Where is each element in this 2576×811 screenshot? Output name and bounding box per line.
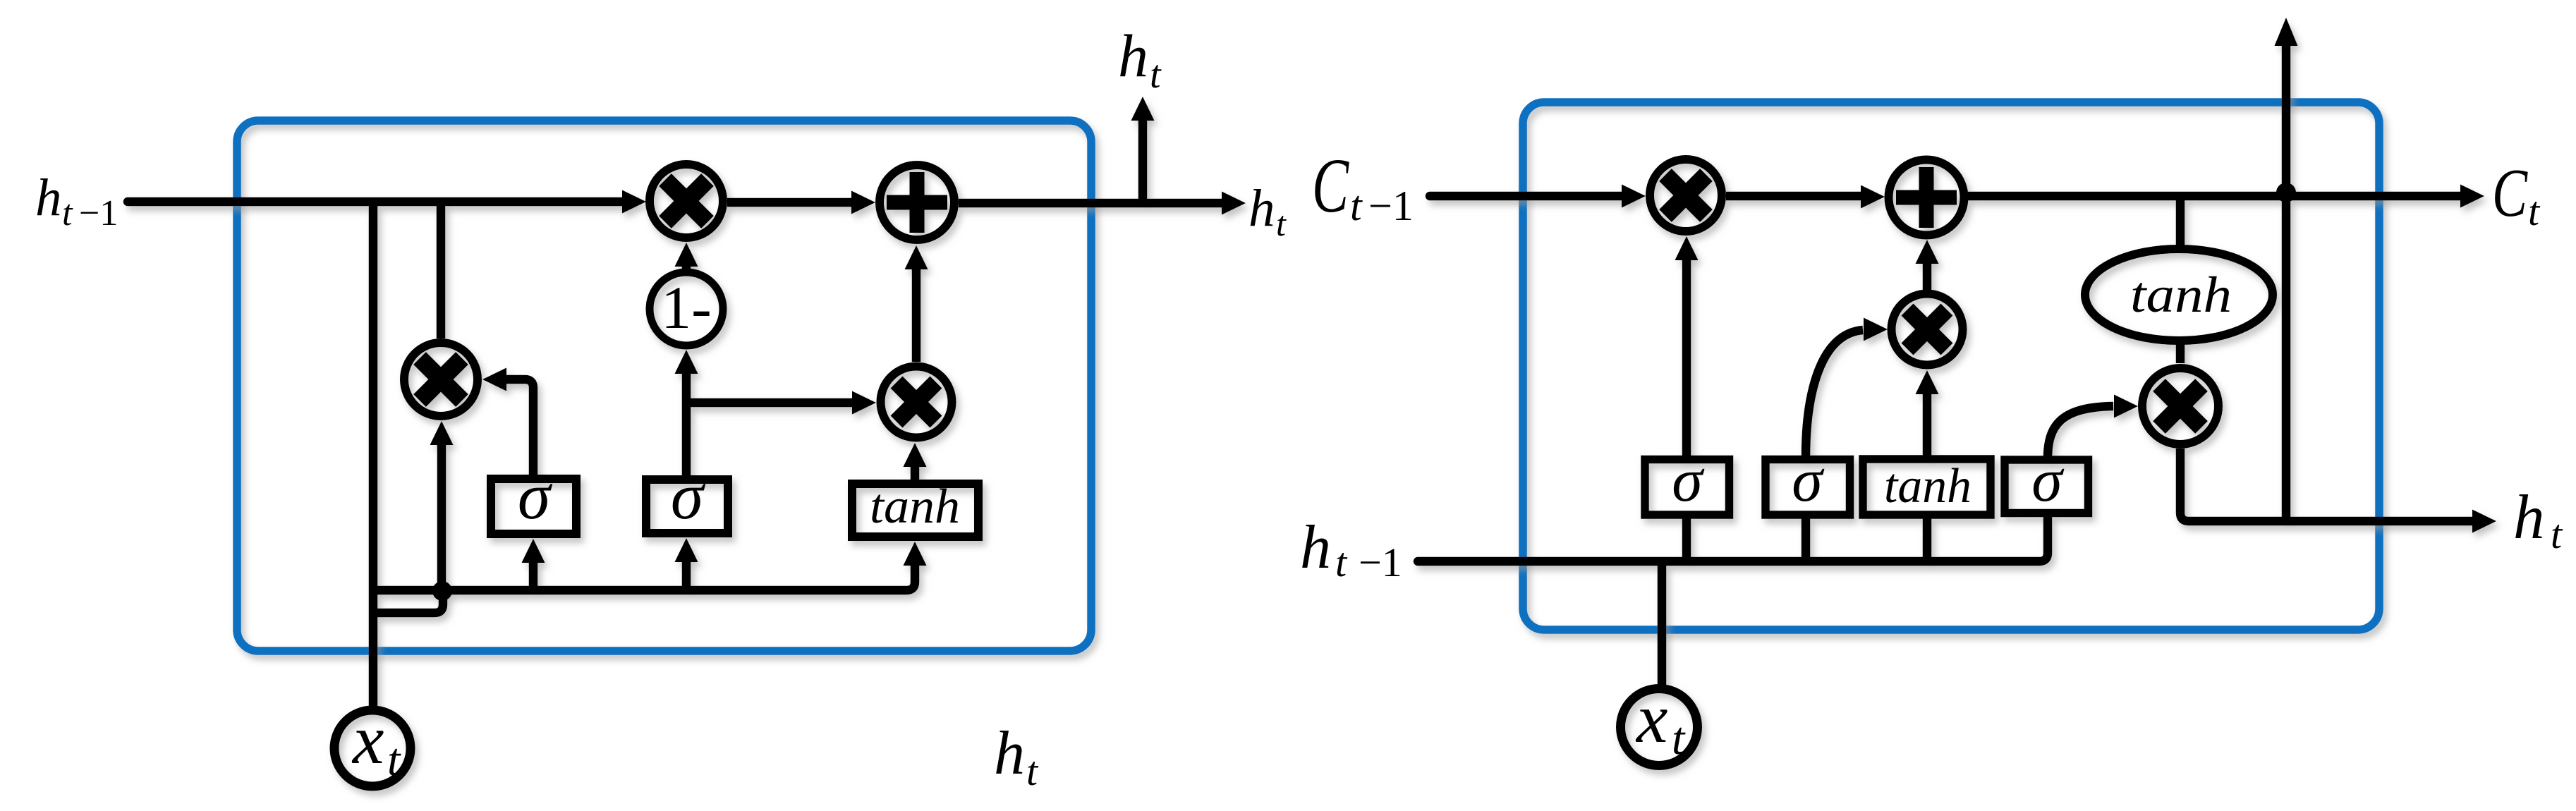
svg-text:σ: σ: [1792, 446, 1825, 515]
wire curve sigma o to output multiply: [2048, 406, 2113, 458]
svg-text:h: h: [1248, 179, 1275, 238]
wire tanh box to input multiply: [1923, 394, 1932, 458]
wire 1- node to multiply M1: [682, 267, 691, 269]
x_t circle right diagram: [1621, 689, 1698, 766]
svg-text:−1: −1: [79, 193, 118, 233]
wire tanh ellipse to output multiply: [2176, 341, 2185, 363]
svg-text:h: h: [1118, 22, 1148, 90]
arrowhead into forget multiply: [1622, 185, 1646, 208]
forget multiply node: [1650, 159, 1722, 231]
arrowhead into plus right: [1861, 185, 1885, 209]
svg-text:h: h: [994, 719, 1025, 788]
svg-text:1-: 1-: [661, 274, 712, 341]
wire sigma i stub: [1802, 518, 1811, 561]
arrowhead into input multiply left: [1864, 318, 1888, 341]
arrowhead into tanh box bottom: [904, 542, 927, 566]
wire bus to sigma2: [682, 562, 691, 590]
arrowhead into 1- node bottom: [675, 350, 698, 374]
wire sigma f to forget multiply: [1682, 260, 1691, 458]
arrowhead top of tall vertical: [2275, 18, 2298, 46]
multiply node M1 (top): [650, 164, 723, 238]
wire M1 to plus node: [727, 198, 851, 207]
wire sigma1 top elbow to reset multiply: [506, 379, 533, 475]
plus node right diagram: [1889, 160, 1964, 236]
svg-text:tanh: tanh: [1884, 459, 1972, 513]
wire vertical to x_t: [369, 202, 378, 706]
x_t input circle: [334, 710, 411, 786]
arrowhead output h_t right: [1222, 192, 1246, 215]
wire branch up to h_t top: [1138, 121, 1148, 203]
svg-text:t: t: [1150, 53, 1162, 97]
svg-text:h: h: [2513, 483, 2545, 552]
wire h(t-1) input right diagram: [1418, 518, 2048, 561]
svg-text:x: x: [1635, 679, 1667, 757]
arrowhead into sigma2 bottom: [675, 538, 698, 562]
wire tanh box to candidate multiply: [911, 467, 920, 480]
wire input multiply to plus: [1923, 264, 1932, 290]
wire x_t vertical right diagram: [1658, 561, 1667, 685]
svg-text:t: t: [1026, 748, 1039, 794]
sigma2 box: [646, 480, 728, 533]
sigma f box: [1645, 460, 1730, 516]
arrowhead into multiply node M1: [622, 190, 646, 214]
tanh ellipse: [2085, 249, 2273, 341]
arrowhead C_t output: [2460, 185, 2484, 208]
junction dot on bus: [432, 581, 452, 601]
wire bottom bus with elbow up to tanh: [373, 566, 915, 590]
wire junction to reset multiply node: [437, 445, 446, 592]
arrowhead into candidate multiply bottom: [904, 443, 927, 467]
svg-text:h: h: [35, 169, 62, 227]
svg-text:h: h: [1300, 513, 1331, 582]
wire output multiply elbow to h_t output: [2180, 449, 2472, 521]
wire candidate multiply to plus node: [912, 269, 921, 362]
arrowhead into input multiply bottom: [1916, 370, 1939, 394]
svg-text:C: C: [2492, 155, 2528, 231]
cell frame (blue rounded box): [237, 121, 1091, 651]
input multiply node: [1892, 294, 1963, 365]
svg-text:σ: σ: [518, 460, 553, 533]
tanh box right diagram: [1863, 459, 1991, 515]
output multiply node: [2142, 368, 2218, 444]
1- node circle: [650, 272, 723, 346]
svg-text:σ: σ: [671, 460, 706, 533]
svg-text:tanh: tanh: [870, 480, 960, 534]
svg-text:t: t: [1350, 183, 1363, 229]
arrowhead into plus node bottom: [905, 245, 928, 269]
wire vertical to reset multiply node: [437, 202, 446, 339]
svg-text:−1: −1: [1368, 183, 1414, 229]
wire plus node to output: [959, 199, 1222, 208]
svg-text:t: t: [62, 193, 73, 233]
sigma1 box: [491, 479, 576, 534]
wire sigma2 to 1- node: [682, 374, 691, 475]
reset multiply node: [404, 343, 478, 416]
arrowhead into plus node: [851, 191, 875, 214]
wire tall vertical up through C line: [2282, 46, 2291, 521]
wire x_t jog to bus junction: [373, 595, 443, 613]
wire forget multiply to plus: [1726, 192, 1861, 201]
arrowhead into reset multiply bottom: [430, 421, 454, 445]
wire branch down to tanh ellipse: [2176, 197, 2185, 248]
arrowhead into plus bottom right diagram: [1916, 240, 1939, 264]
arrowhead h_t output right: [2472, 510, 2496, 533]
svg-text:−1: −1: [1359, 539, 1402, 585]
wire h(t-1) input line: [128, 197, 624, 207]
arrowhead into candidate multiply left: [852, 391, 876, 415]
svg-text:t: t: [1672, 713, 1686, 764]
tanh box: [852, 484, 978, 537]
arrowhead into forget multiply bottom: [1675, 236, 1699, 260]
svg-text:t: t: [387, 734, 401, 786]
wire bus to sigma1: [529, 563, 538, 590]
svg-text:σ: σ: [2031, 446, 2065, 515]
plus node: [880, 165, 954, 240]
arrowhead into M1 bottom: [675, 243, 698, 267]
cell frame right (blue rounded box): [1523, 102, 2379, 630]
arrowhead into reset multiply right: [482, 368, 506, 391]
svg-text:σ: σ: [1672, 446, 1705, 515]
candidate multiply node: [881, 367, 952, 438]
wire tanh box stub: [1923, 518, 1932, 561]
junction dot on C line: [2276, 183, 2296, 202]
wire sigma f stub: [1682, 518, 1691, 561]
svg-text:t: t: [1276, 204, 1287, 243]
wire C(t-1) input: [1430, 192, 1622, 201]
svg-text:x: x: [351, 700, 384, 779]
svg-text:t: t: [2551, 511, 2563, 557]
sigma o box: [2005, 460, 2089, 513]
arrowhead into output multiply left: [2114, 395, 2138, 418]
wire branch to candidate multiply node: [686, 398, 852, 408]
svg-text:C: C: [1312, 142, 1349, 228]
wire plus to C_t output: [1968, 192, 2460, 201]
arrowhead into sigma1 bottom: [522, 539, 545, 563]
sigma i box: [1766, 460, 1850, 516]
svg-text:t: t: [2528, 188, 2541, 234]
svg-text:t: t: [1335, 539, 1348, 585]
svg-text:tanh: tanh: [2130, 267, 2232, 323]
arrowhead h_t top: [1131, 97, 1155, 121]
wire curve sigma i to input multiply: [1806, 330, 1863, 458]
